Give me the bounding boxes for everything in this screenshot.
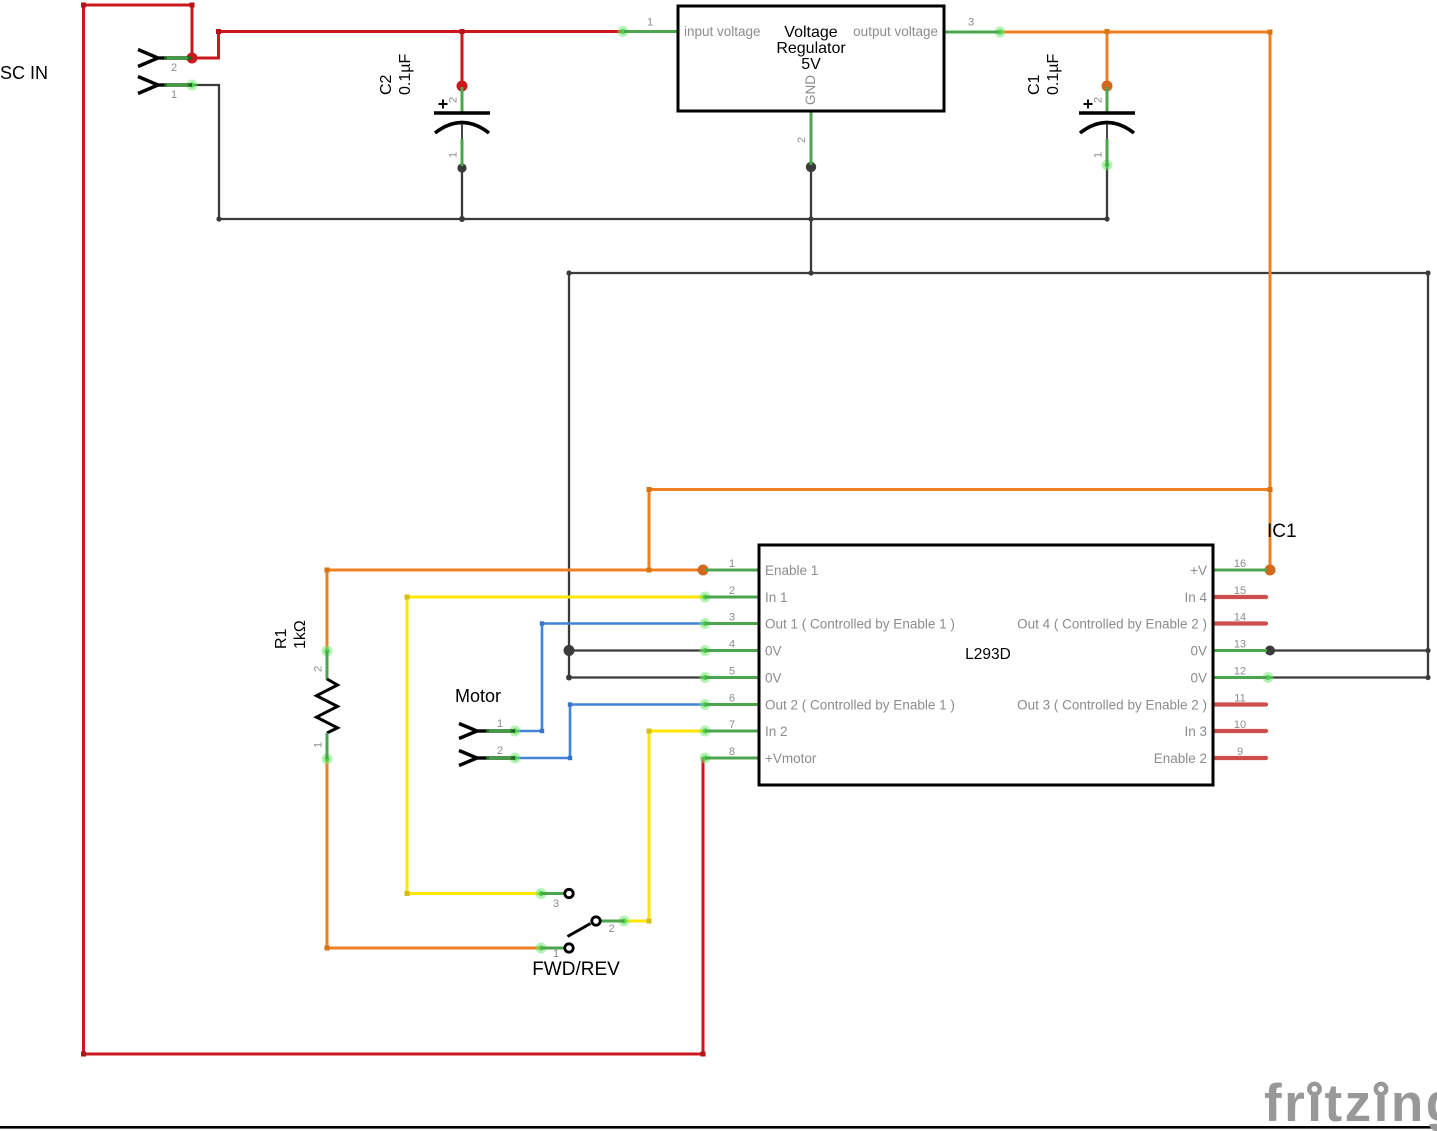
resistor R1 pin1 leg bbox=[326, 733, 329, 759]
capacitor C1 bbox=[1026, 54, 1135, 166]
motor pin1 leg bbox=[486, 729, 515, 732]
IC1 left legs 1-8 bbox=[705, 570, 759, 758]
svg-text:Out 4 ( Controlled by Enable 2: Out 4 ( Controlled by Enable 2 ) bbox=[1017, 617, 1207, 632]
node IC1 +V orange junction bbox=[1265, 565, 1276, 576]
capacitor C1 pin1 leg bbox=[1106, 139, 1109, 166]
IC1 body bbox=[759, 545, 1213, 785]
svg-text:12: 12 bbox=[1234, 666, 1246, 678]
capacitor C2 stem bbox=[461, 123, 463, 140]
wire black: drop to IC1 pin4/pin5 bbox=[568, 273, 570, 678]
svg-text:IC1: IC1 bbox=[1267, 521, 1297, 542]
svg-text:6: 6 bbox=[729, 693, 735, 705]
wire black: OSC-IN pin1 down to ground bus bbox=[192, 85, 219, 219]
svg-text:14: 14 bbox=[1234, 612, 1246, 624]
wire black: IC1 pin4 0V bbox=[569, 649, 705, 651]
fritzing logo bbox=[1264, 1074, 1437, 1131]
svg-text:9: 9 bbox=[1237, 746, 1243, 758]
capacitor C2 pin2 leg bbox=[461, 87, 464, 113]
svg-text:Motor: Motor bbox=[455, 686, 501, 706]
svg-text:In 1: In 1 bbox=[765, 590, 788, 605]
node OSC-IN pin2 red junction bbox=[187, 53, 198, 64]
capacitor C1 curved plate bbox=[1080, 123, 1134, 134]
svg-text:Out 2 ( Controlled by Enable 1: Out 2 ( Controlled by Enable 1 ) bbox=[765, 698, 955, 713]
wire blue: IC1 Out2 to Motor pin2 bbox=[515, 705, 705, 759]
connector J1 pin2 arrow bbox=[138, 50, 192, 75]
svg-text:2: 2 bbox=[171, 62, 177, 74]
svg-text:2: 2 bbox=[608, 923, 614, 935]
svg-text:0V: 0V bbox=[1190, 644, 1207, 659]
wire black: IC1 pin13 0V bbox=[1270, 649, 1428, 651]
switch pin2 leg bbox=[601, 920, 624, 923]
svg-text:2: 2 bbox=[729, 585, 735, 597]
motor pin2 leg bbox=[486, 756, 515, 759]
svg-text:Enable 1: Enable 1 bbox=[765, 563, 818, 578]
orange bendpoints bbox=[325, 29, 1273, 951]
svg-text:2: 2 bbox=[497, 745, 503, 757]
voltage regulator pin1 leg bbox=[624, 30, 678, 33]
svg-text:2: 2 bbox=[1093, 97, 1105, 103]
wire blue: IC1 Out1 to Motor pin1 bbox=[515, 624, 705, 732]
resistor R1 pin2 leg bbox=[326, 651, 329, 680]
svg-text:+Vmotor: +Vmotor bbox=[765, 751, 817, 766]
svg-text:In 3: In 3 bbox=[1184, 724, 1207, 739]
svg-text:Enable 2: Enable 2 bbox=[1154, 751, 1207, 766]
blue bendpoints bbox=[540, 621, 572, 760]
svg-text:1: 1 bbox=[313, 742, 325, 748]
svg-text:15: 15 bbox=[1234, 585, 1246, 597]
svg-text:GND: GND bbox=[803, 75, 818, 105]
IC1 right connected legs 16,13,12 bbox=[1213, 570, 1267, 678]
svg-text:16: 16 bbox=[1234, 558, 1246, 570]
wire black: right side drop bbox=[1427, 273, 1429, 678]
wire red: OSC-IN pin2 to +Vmotor loop (left/bottom) bbox=[84, 5, 704, 1054]
capacitor C2 pin1 leg bbox=[461, 139, 464, 166]
IC1 left pin numbers bbox=[729, 558, 735, 758]
node IC1 Enable1 orange junction bbox=[698, 565, 709, 576]
svg-text:1: 1 bbox=[171, 89, 177, 101]
switch pin1 leg bbox=[541, 947, 564, 950]
svg-text:R1: R1 bbox=[273, 628, 290, 649]
connector J1 pin2 leg bbox=[164, 56, 192, 59]
svg-text:1: 1 bbox=[448, 152, 460, 158]
capacitor C2 top plate bbox=[434, 111, 490, 115]
svg-text:3: 3 bbox=[729, 612, 735, 624]
yellow bendpoints bbox=[405, 595, 652, 924]
svg-text:0V: 0V bbox=[1190, 671, 1207, 686]
node C2 pin1 black junction bbox=[457, 163, 466, 172]
svg-text:1: 1 bbox=[497, 718, 503, 730]
wire black: IC1 pin12 0V bbox=[1268, 676, 1428, 678]
wire orange: Enable1 to R1 pin2 bbox=[327, 570, 705, 651]
connector J1 pin1 arrow bbox=[138, 77, 192, 102]
capacitor C1 stem bbox=[1106, 123, 1108, 140]
node C2 pin2 red junction bbox=[457, 81, 468, 92]
capacitor C2 curved plate bbox=[435, 123, 489, 134]
svg-text:1: 1 bbox=[729, 558, 735, 570]
svg-text:0.1µF: 0.1µF bbox=[1045, 54, 1062, 95]
svg-text:2: 2 bbox=[313, 666, 325, 672]
svg-text:+V: +V bbox=[1190, 563, 1207, 578]
red bendpoints bbox=[81, 3, 706, 1057]
IC1 right unconnected red pins 15,14,11,10,9 bbox=[1214, 597, 1266, 758]
svg-text:Out 3 ( Controlled by Enable 2: Out 3 ( Controlled by Enable 2 ) bbox=[1017, 698, 1207, 713]
sheet bottom border bbox=[0, 1126, 1437, 1129]
switch S1 FWD/REV bbox=[532, 889, 624, 980]
svg-text:In 2: In 2 bbox=[765, 724, 788, 739]
svg-text:C2: C2 bbox=[378, 74, 395, 95]
svg-text:fritzing: fritzing bbox=[1264, 1074, 1437, 1131]
svg-text:L293D: L293D bbox=[965, 646, 1011, 663]
voltage regulator U2 bbox=[624, 6, 999, 165]
IC1 right pin names bbox=[1017, 563, 1207, 766]
resistor R1 zigzag body bbox=[317, 679, 338, 733]
voltage regulator pin3 leg bbox=[944, 31, 999, 34]
svg-text:0V: 0V bbox=[765, 671, 782, 686]
svg-text:Out 1 ( Controlled by Enable 1: Out 1 ( Controlled by Enable 1 ) bbox=[765, 617, 955, 632]
switch pin3 terminal bbox=[565, 889, 573, 897]
svg-text:Regulator: Regulator bbox=[776, 40, 846, 57]
voltage regulator pin2 GND leg bbox=[810, 111, 813, 165]
node C1 pin2 orange junction bbox=[1102, 81, 1113, 92]
svg-text:5V: 5V bbox=[801, 56, 821, 73]
svg-text:0.1µF: 0.1µF bbox=[397, 54, 414, 95]
svg-text:5: 5 bbox=[729, 666, 735, 678]
svg-text:13: 13 bbox=[1234, 639, 1246, 651]
motor pin2 arrow bbox=[459, 751, 477, 766]
wire orange: +V rail to Enable1 bbox=[649, 490, 1270, 571]
svg-text:2: 2 bbox=[448, 97, 460, 103]
wire black: IC1 pin5 0V bbox=[569, 676, 705, 678]
svg-text:10: 10 bbox=[1234, 719, 1246, 731]
motor pin1 arrow bbox=[459, 724, 477, 739]
svg-text:3: 3 bbox=[968, 17, 974, 29]
switch lever bbox=[568, 924, 591, 937]
connector J1 pin1 leg bbox=[164, 83, 192, 86]
wire red: branch to C2 pin2 bbox=[461, 32, 464, 87]
wire orange: R1 pin1 to switch common bbox=[327, 759, 541, 948]
node IC1 pin13 black junction bbox=[1265, 646, 1275, 656]
capacitor C2 plus sign bbox=[439, 100, 448, 109]
IC1 left pin names bbox=[765, 563, 955, 766]
motor M1 bbox=[455, 686, 515, 766]
wire orange: branch to C1 pin2 bbox=[1106, 32, 1109, 86]
svg-text:2: 2 bbox=[796, 137, 808, 143]
svg-text:7: 7 bbox=[729, 719, 735, 731]
voltage regulator body bbox=[678, 6, 944, 111]
svg-text:1: 1 bbox=[1093, 152, 1105, 158]
svg-text:Voltage: Voltage bbox=[784, 24, 837, 41]
wire black: C2 pin1 to ground bus bbox=[461, 168, 463, 219]
node regulator GND junction bbox=[806, 162, 816, 172]
wire yellow: IC1 In2 to switch pin2 bbox=[624, 731, 705, 921]
svg-text:3: 3 bbox=[553, 898, 559, 910]
wire black: regulator GND down through buses bbox=[810, 167, 812, 273]
wire black: lower ground rail bbox=[569, 272, 1428, 274]
svg-text:input voltage: input voltage bbox=[684, 24, 761, 39]
svg-text:output voltage: output voltage bbox=[853, 24, 938, 39]
svg-text:1: 1 bbox=[647, 17, 653, 29]
capacitor C1 pin2 leg bbox=[1106, 87, 1109, 113]
wire black: ground bus bbox=[219, 218, 1107, 220]
svg-text:4: 4 bbox=[729, 639, 735, 651]
wire orange: regulator output to IC1 +V bbox=[999, 32, 1270, 570]
switch pin3 leg bbox=[541, 892, 564, 895]
IC1 right pin numbers bbox=[1234, 558, 1246, 758]
wire red: OSC-IN pin2 to regulator input bbox=[192, 32, 623, 59]
svg-text:FWD/REV: FWD/REV bbox=[532, 959, 620, 980]
svg-text:SC IN: SC IN bbox=[0, 63, 48, 83]
wire black: C1 pin1 to ground bus bbox=[1106, 166, 1108, 219]
capacitor C1 plus sign bbox=[1084, 100, 1093, 109]
svg-text:In 4: In 4 bbox=[1184, 590, 1207, 605]
node IC1 pin4 black junction bbox=[564, 645, 575, 656]
svg-text:C1: C1 bbox=[1026, 74, 1043, 95]
capacitor C2 bbox=[378, 54, 490, 166]
svg-text:11: 11 bbox=[1234, 693, 1245, 705]
black bendpoints bbox=[216, 216, 1430, 681]
svg-text:8: 8 bbox=[729, 746, 735, 758]
wire-end green glows bbox=[187, 26, 1274, 954]
switch pin1 terminal bbox=[565, 944, 573, 952]
resistor R1 bbox=[273, 620, 338, 759]
IC U1 L293D bbox=[705, 521, 1297, 785]
svg-text:1kΩ: 1kΩ bbox=[292, 620, 309, 649]
svg-text:0V: 0V bbox=[765, 644, 782, 659]
wire yellow: IC1 In1 to switch pin3 bbox=[407, 597, 705, 894]
switch pin2 terminal bbox=[592, 917, 600, 925]
capacitor C1 top plate bbox=[1079, 111, 1135, 115]
